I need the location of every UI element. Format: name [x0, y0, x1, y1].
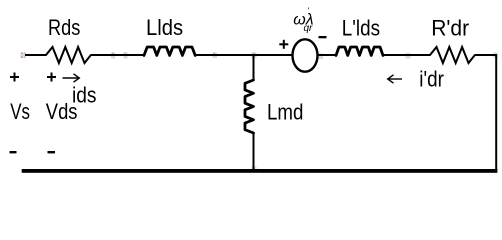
svg-text:i'dr: i'dr: [419, 66, 444, 91]
svg-text:Lmd: Lmd: [267, 100, 303, 125]
svg-text:Llds: Llds: [146, 15, 183, 40]
svg-text:qr: qr: [304, 23, 314, 34]
svg-text:Vs: Vs: [10, 99, 30, 124]
svg-text:Rds: Rds: [48, 15, 80, 40]
svg-text:R'dr: R'dr: [431, 16, 469, 41]
svg-text:L'lds: L'lds: [342, 16, 380, 41]
svg-text:Vds: Vds: [46, 99, 78, 124]
